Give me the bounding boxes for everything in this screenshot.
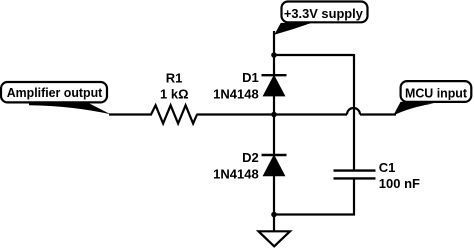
- diode D2 cathode bar: [262, 154, 287, 156]
- callout pointer for MCU input: [394, 102, 434, 115]
- diode D2 triangle (anode pointing up): [264, 156, 284, 176]
- svg-text:Amplifier output: Amplifier output: [7, 85, 103, 100]
- wire: +3.3V callout tip down to supply node: [273, 31, 275, 56]
- wire: main junction down to D2 cathode: [273, 115, 275, 156]
- callout pointer for +3.3V supply: [274, 23, 311, 35]
- callout box: MCU input: [401, 81, 472, 102]
- wire: supply node down to D1 cathode: [273, 55, 275, 75]
- node: ground node junction dot: [271, 212, 277, 218]
- wire: resistor to center junction and on to hop: [197, 113, 348, 115]
- svg-text:R1: R1: [166, 70, 183, 85]
- svg-text:C1: C1: [379, 160, 396, 175]
- resistor R1: [151, 105, 197, 123]
- capacitor C1 top plate: [334, 169, 376, 171]
- wire hop over capacitor branch: [347, 108, 360, 115]
- svg-text:D2: D2: [242, 150, 259, 165]
- svg-text:MCU input: MCU input: [405, 85, 468, 100]
- ground symbol: [259, 231, 291, 246]
- svg-text:1 kΩ: 1 kΩ: [160, 86, 189, 101]
- svg-text:100 nF: 100 nF: [379, 176, 420, 191]
- diode D1 cathode bar: [262, 74, 287, 76]
- wire: ground node to ground symbol: [273, 215, 275, 232]
- node: main junction dot on signal line: [271, 112, 277, 118]
- wire: D2 anode down to ground node: [273, 175, 275, 215]
- capacitor C1 bottom plate: [334, 177, 376, 179]
- wire: capacitor branch vertical down to C1 top plate: [353, 54, 355, 170]
- wire: hop to MCU callout: [360, 113, 396, 115]
- callout pointer for Amplifier output: [29, 102, 111, 115]
- callout box: Amplifier output: [1, 82, 107, 102]
- svg-text:1N4148: 1N4148: [213, 166, 259, 181]
- svg-text:D1: D1: [242, 70, 259, 85]
- node: supply node junction dot: [271, 52, 277, 58]
- svg-text:1N4148: 1N4148: [213, 86, 259, 101]
- wire: supply node right to capacitor branch top: [274, 54, 354, 56]
- diode D1 triangle (anode pointing up): [264, 76, 284, 95]
- wire: C1 bottom plate down to bottom rail: [353, 178, 355, 215]
- wire: D1 anode to main junction: [273, 95, 275, 114]
- callout box: +3.3V supply: [282, 2, 368, 23]
- svg-text:+3.3V supply: +3.3V supply: [284, 6, 364, 21]
- wire: bottom rail from ground node to capacitor branch: [274, 213, 355, 215]
- wire: main horizontal from amplifier callout to resistor: [109, 113, 152, 115]
